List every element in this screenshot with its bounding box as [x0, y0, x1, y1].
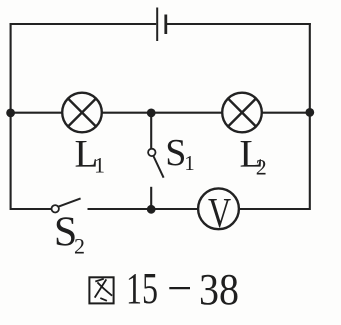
svg-text:V: V: [208, 189, 231, 237]
svg-text:38: 38: [199, 265, 239, 315]
svg-text:15: 15: [126, 264, 158, 313]
svg-text:1: 1: [184, 151, 195, 175]
svg-text:2: 2: [256, 155, 267, 180]
svg-text:1: 1: [94, 152, 105, 177]
svg-text:S: S: [165, 132, 186, 174]
svg-text:2: 2: [74, 234, 85, 259]
